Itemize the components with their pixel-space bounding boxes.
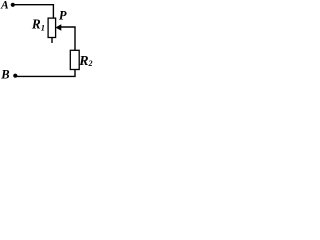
svg-text:R1: R1 (31, 17, 45, 33)
svg-text:A: A (0, 0, 9, 12)
wire stub below R1 (51, 38, 53, 43)
wire from node A to top of R1 (13, 5, 53, 19)
resistor R2 (70, 50, 79, 69)
node A junction dot (11, 3, 15, 7)
node B junction dot (13, 74, 17, 78)
svg-text:B: B (0, 68, 9, 82)
svg-text:R2: R2 (78, 54, 92, 69)
wiper arrow P (arrowhead) (56, 25, 61, 31)
resistor R1 (48, 18, 56, 37)
wiper arrow tail wire to R2 (60, 27, 76, 51)
svg-text:P: P (59, 9, 67, 23)
wire from R2 bottom to node B (15, 69, 75, 76)
